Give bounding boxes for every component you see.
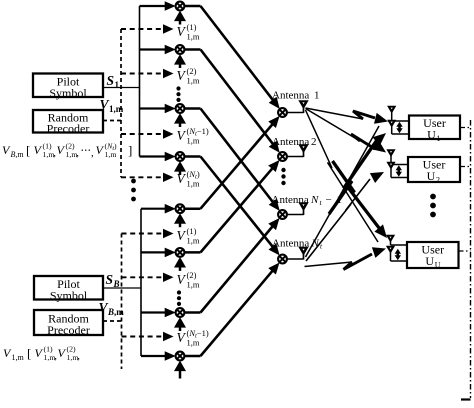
dots mult column top (176, 86, 180, 90)
wire bottom mult 4 to antenna 4 (184, 355, 200, 358)
wire SB pilot2 to bus (103, 287, 141, 289)
svg-text:]: ] (128, 143, 132, 158)
svg-text:2: 2 (311, 136, 317, 148)
svg-text:2: 2 (436, 176, 440, 185)
antenna 2 wire (287, 156, 304, 158)
svg-text:(2): (2) (187, 270, 197, 280)
svg-text:Symbol: Symbol (49, 86, 87, 100)
wire bottom mult 1 to antenna 1 (184, 207, 200, 210)
svg-text:(1): (1) (43, 142, 52, 151)
multiplier M1-2 input+circle (140, 48, 168, 50)
svg-text:S: S (106, 272, 114, 287)
antenna 2 symbol (300, 145, 308, 152)
wire top mult 4 to antenna 4 (184, 155, 200, 158)
antenna 3 wire (287, 214, 304, 216)
svg-text:(1): (1) (187, 226, 197, 236)
svg-text:(1): (1) (187, 22, 197, 32)
svg-text:(2): (2) (66, 142, 75, 151)
svg-text:1,m: 1,m (187, 236, 200, 246)
user1 antenna b (388, 121, 395, 127)
user2 dashdot stub (460, 166, 471, 168)
antenna 1 mixer (278, 108, 287, 117)
dashed weight branch 1-1 (121, 28, 163, 30)
svg-text:,: , (76, 147, 79, 159)
userU antenna b (387, 247, 394, 253)
dashed weight branch 1-2 (121, 73, 163, 75)
user1 multiantenna arrow (398, 125, 401, 130)
svg-text:(2): (2) (67, 345, 76, 354)
svg-text:U: U (427, 128, 436, 142)
svg-text:Symbol: Symbol (50, 288, 88, 302)
dots mult column bottom (177, 290, 181, 294)
antenna 4 symbol (300, 248, 308, 255)
multiplier M2-1 input+circle (141, 208, 167, 210)
userU box (407, 242, 459, 268)
multiplier M1-1 input+circle (140, 5, 168, 7)
svg-text:U: U (435, 261, 441, 270)
user2 multiantenna arrow (397, 169, 400, 174)
user2 box (408, 157, 460, 182)
svg-text:1: 1 (437, 134, 441, 143)
antenna 3 symbol (300, 203, 308, 210)
svg-text:1,m: 1,m (187, 280, 200, 290)
solid bus 1 (139, 6, 141, 157)
wire S1 pilot1 to bus (103, 87, 140, 89)
user2 antenna a (388, 150, 395, 156)
multiplier M2-2 input+circle (141, 251, 167, 253)
channel antenna1 to userU (306, 110, 379, 242)
svg-text:Antenna: Antenna (272, 90, 309, 102)
svg-text:V: V (100, 97, 110, 112)
svg-text:,: , (77, 350, 80, 362)
multiplier M2-4 input+circle (141, 355, 167, 357)
svg-text:B,m: B,m (11, 150, 25, 159)
channel antenna1 to user2 (306, 109, 361, 142)
wire bottom mult 3 to antenna 3 (184, 311, 200, 314)
channel bolt to userU (333, 161, 382, 231)
user1 antenna a (388, 107, 395, 113)
userU multiantenna arrow (396, 252, 399, 257)
multiplier M2-3 input+circle (141, 311, 167, 313)
solid bus 2 (140, 209, 142, 356)
wire top mult 1 to antenna 1 (184, 5, 200, 8)
userU antenna a (387, 236, 394, 242)
channel antennaNt to user1 (306, 126, 380, 257)
svg-text:U: U (427, 169, 436, 183)
svg-text:1,m: 1,m (187, 136, 200, 146)
svg-text:1,m: 1,m (187, 76, 200, 86)
svg-text:V: V (99, 300, 109, 315)
wire top mult 3 to antenna 3 (184, 107, 200, 110)
svg-text:N: N (310, 194, 319, 206)
svg-text:1,m: 1,m (187, 179, 200, 189)
multiplier M1-4 input+circle (140, 155, 168, 157)
svg-text:−: − (326, 194, 332, 206)
svg-text:⋯: ⋯ (81, 146, 92, 157)
user1 box (409, 116, 460, 140)
random precoder block 1 (33, 110, 103, 133)
random precoder block 2 (34, 310, 103, 335)
svg-text:U: U (425, 254, 434, 268)
channel bolt to user1 (329, 140, 377, 214)
user1 dashdot stub (460, 127, 471, 129)
svg-text:Precoder: Precoder (47, 121, 90, 135)
dashed precoder bus 2 (121, 234, 123, 370)
dots antenna column (281, 168, 285, 172)
svg-text:(2): (2) (187, 66, 197, 76)
svg-text:1,m: 1,m (12, 353, 25, 362)
svg-text:(1): (1) (44, 345, 53, 354)
antenna 4 mixer (278, 255, 287, 264)
multiplier M1-3 input+circle (140, 107, 168, 109)
dashdot boundary line (470, 120, 472, 398)
dashed weight branch 1-3 (121, 133, 163, 135)
dots between clusters (131, 179, 136, 184)
user2 antenna b (388, 163, 395, 169)
antenna 3 mixer (278, 210, 287, 219)
svg-text:Precoder: Precoder (47, 323, 90, 337)
antenna 4 wire (287, 258, 304, 260)
svg-text:1: 1 (314, 90, 320, 102)
channel antennaNt to userU (305, 262, 353, 267)
wire top mult 2 to antenna 2 (184, 48, 200, 51)
channel antennaNt to user2 (306, 179, 370, 261)
svg-text:[: [ (27, 346, 31, 361)
dashed weight branch 2-2 (122, 276, 163, 278)
svg-text:1: 1 (115, 80, 120, 90)
svg-text:1,m: 1,m (187, 32, 200, 42)
dashed weight branch 2-3 (122, 336, 163, 338)
channel antenna1 to user1 (306, 108, 364, 119)
svg-text:1,m: 1,m (187, 338, 200, 348)
svg-text:S: S (107, 73, 115, 88)
antenna 1 wire (287, 112, 304, 114)
pilot symbol block 1 (33, 74, 103, 98)
svg-text:,: , (91, 147, 94, 159)
dots user column (430, 194, 436, 200)
dashed precoder bus 1 (120, 29, 122, 177)
wire precoder1 dashed stub (103, 120, 121, 122)
userU dashdot stub (459, 250, 471, 252)
svg-text:[: [ (26, 143, 30, 158)
antenna 2 mixer (278, 152, 287, 161)
pilot symbol block 2 (34, 276, 103, 300)
svg-text:1,m: 1,m (105, 150, 117, 159)
dashed weight branch 2-1 (122, 233, 163, 235)
dashed weight branch 1-4 (121, 176, 163, 178)
antenna 1 symbol (300, 101, 308, 108)
wire precoder2 dashed stub (103, 320, 122, 322)
wire bottom mult 2 to antenna 2 (184, 251, 200, 254)
